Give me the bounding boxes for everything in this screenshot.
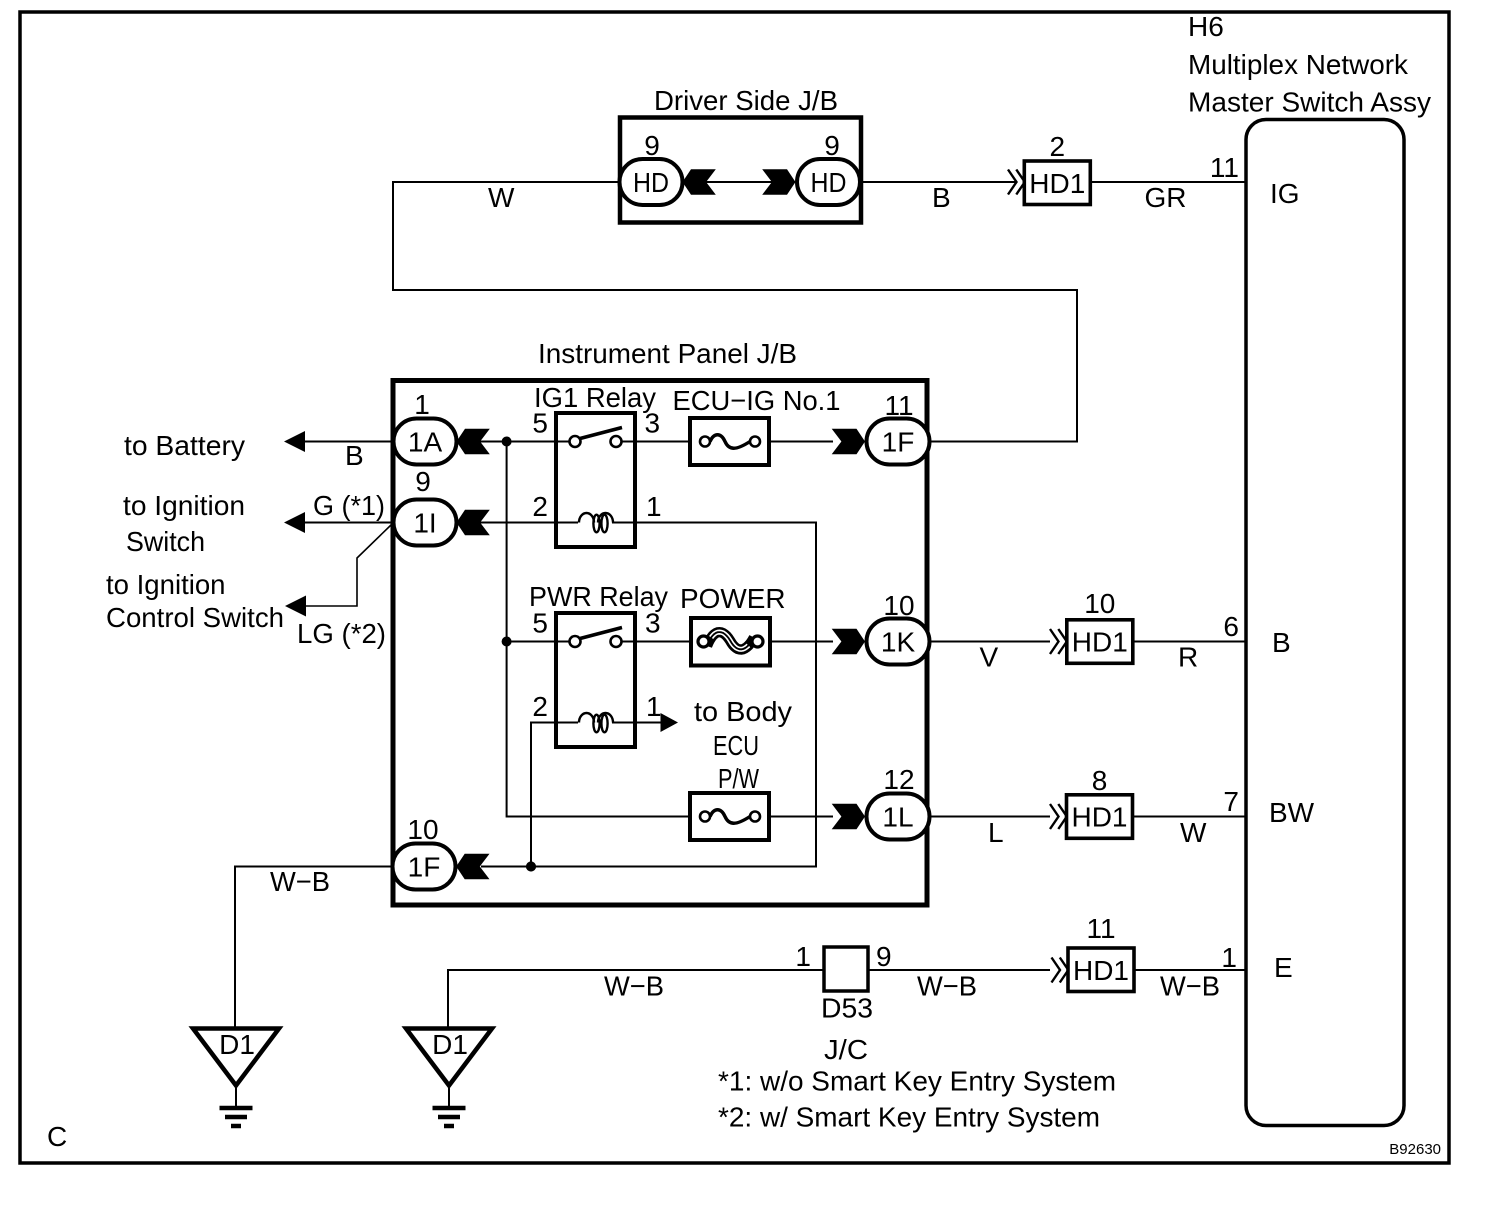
connector chevrons HD1(11) bbox=[1052, 958, 1069, 983]
connector chevrons HD1(2) bbox=[1008, 170, 1025, 195]
svg-text:1: 1 bbox=[646, 491, 662, 522]
wire junction to PWR relay pin5 bbox=[507, 641, 556, 643]
svg-text:5: 5 bbox=[532, 408, 548, 439]
svg-text:D1: D1 bbox=[432, 1029, 468, 1060]
svg-text:W−B: W−B bbox=[1160, 971, 1220, 1002]
arrow into 1K bbox=[832, 629, 865, 654]
wire POWER fuse to 1K arrow bbox=[770, 641, 833, 643]
wire branch to ignition control switch bbox=[304, 525, 392, 607]
wire PWR coil pin1 to body ECU arrow bbox=[635, 722, 661, 724]
svg-text:E: E bbox=[1274, 952, 1293, 983]
wire ECU-IG fuse to 1F(11) arrow bbox=[769, 441, 833, 443]
svg-text:6: 6 bbox=[1223, 611, 1239, 642]
svg-text:11: 11 bbox=[1210, 152, 1239, 183]
svg-text:BW: BW bbox=[1269, 797, 1315, 828]
relay PWR coil bbox=[556, 722, 578, 724]
wire W-B from D1 right to D53 bbox=[448, 970, 824, 1029]
arrow into HD left bbox=[683, 169, 716, 194]
connector HD1 (2) bbox=[1024, 161, 1090, 205]
svg-text:Multiplex Network: Multiplex Network bbox=[1188, 49, 1409, 80]
wire W-B to ground D1 left bbox=[235, 867, 394, 1029]
arrow into 1L bbox=[832, 804, 865, 829]
relay PWR bbox=[556, 613, 635, 747]
svg-text:1: 1 bbox=[646, 691, 662, 722]
svg-text:10: 10 bbox=[407, 814, 438, 845]
wire IG1 coil pin1 down to 1F(10) row bbox=[481, 523, 816, 867]
svg-text:11: 11 bbox=[1086, 913, 1115, 944]
svg-text:B92630: B92630 bbox=[1389, 1141, 1441, 1158]
svg-text:B: B bbox=[1272, 627, 1291, 658]
wire B to battery bbox=[304, 441, 394, 443]
connector 1A bbox=[394, 419, 457, 465]
svg-text:1K: 1K bbox=[881, 627, 916, 658]
svg-text:HD: HD bbox=[633, 167, 669, 198]
wire V from 1K to HD1(10) bbox=[930, 641, 1051, 643]
svg-text:1F: 1F bbox=[882, 427, 915, 458]
connector 1I bbox=[394, 500, 457, 546]
connector HD1 (8) bbox=[1067, 795, 1133, 839]
svg-text:Control Switch: Control Switch bbox=[106, 602, 284, 633]
wire 1I to IG1 relay pin2 bbox=[480, 522, 556, 524]
wire IG1 relay pin3 to ECU-IG fuse bbox=[635, 441, 690, 443]
svg-text:H6: H6 bbox=[1188, 11, 1224, 42]
fuse POWER (fusible link) bbox=[691, 618, 770, 666]
svg-text:HD1: HD1 bbox=[1029, 168, 1085, 199]
relay PWR contact bbox=[556, 641, 570, 643]
svg-text:GR: GR bbox=[1145, 182, 1187, 213]
svg-text:1: 1 bbox=[414, 389, 430, 420]
svg-text:*2: w/ Smart Key Entry System: *2: w/ Smart Key Entry System bbox=[718, 1102, 1100, 1133]
svg-text:10: 10 bbox=[1084, 588, 1115, 619]
junction block Driver Side J/B box bbox=[620, 118, 861, 223]
arrow into 1F(11) bbox=[832, 429, 865, 454]
svg-text:ECU: ECU bbox=[713, 730, 759, 761]
svg-text:3: 3 bbox=[645, 608, 661, 639]
svg-text:*1: w/o Smart Key Entry System: *1: w/o Smart Key Entry System bbox=[718, 1066, 1116, 1097]
connector 1F (11) bbox=[867, 419, 930, 465]
svg-text:G (*1): G (*1) bbox=[313, 490, 385, 521]
relay IG1 bbox=[556, 413, 635, 547]
arrow into 1I bbox=[457, 510, 490, 535]
svg-text:to Ignition: to Ignition bbox=[123, 490, 245, 521]
ground D1 right bbox=[406, 1029, 492, 1127]
relay IG1 contact bbox=[556, 441, 570, 443]
connector HD right bbox=[797, 159, 860, 205]
arrow to Ignition Control Switch bbox=[285, 596, 306, 617]
wire 1A to IG1 relay pin5 bbox=[480, 441, 556, 443]
junction connector D53 box bbox=[824, 947, 868, 991]
arrow to Battery bbox=[284, 431, 305, 452]
wire PWR coil pin2 down to 1F(10) row bbox=[531, 723, 556, 867]
connector chevrons HD1(8) bbox=[1050, 804, 1067, 829]
svg-text:11: 11 bbox=[884, 390, 913, 421]
svg-text:10: 10 bbox=[883, 590, 914, 621]
svg-text:1L: 1L bbox=[882, 802, 913, 833]
svg-text:D1: D1 bbox=[219, 1029, 255, 1060]
svg-text:Instrument Panel J/B: Instrument Panel J/B bbox=[538, 338, 797, 369]
arrow to Ignition Switch bbox=[284, 512, 305, 533]
svg-text:W−B: W−B bbox=[270, 866, 330, 897]
svg-text:9: 9 bbox=[644, 130, 660, 161]
svg-text:8: 8 bbox=[1092, 765, 1108, 796]
connector chevrons HD1(10) bbox=[1050, 629, 1067, 654]
ground D1 left bbox=[193, 1029, 279, 1127]
junction dot at PWR pin5 row bbox=[502, 637, 512, 647]
svg-text:R: R bbox=[1178, 642, 1198, 673]
connector 1L bbox=[867, 794, 930, 840]
svg-text:POWER: POWER bbox=[680, 583, 786, 614]
wire R from HD1 to B pin bbox=[1133, 641, 1246, 643]
connector HD1 (11) bbox=[1068, 948, 1134, 992]
svg-text:IG: IG bbox=[1270, 178, 1300, 209]
svg-text:J/C: J/C bbox=[824, 1034, 868, 1065]
wire P/W fuse to 1L arrow bbox=[769, 816, 833, 818]
svg-text:Switch: Switch bbox=[126, 526, 205, 557]
connector HD1 (10) bbox=[1067, 620, 1133, 664]
svg-text:1I: 1I bbox=[413, 508, 436, 539]
wire G to ignition switch bbox=[304, 522, 394, 524]
svg-text:2: 2 bbox=[532, 691, 548, 722]
arrow into 1A bbox=[457, 429, 490, 454]
svg-text:7: 7 bbox=[1223, 786, 1239, 817]
svg-text:1: 1 bbox=[1221, 942, 1237, 973]
svg-text:to Battery: to Battery bbox=[124, 430, 245, 461]
svg-text:HD1: HD1 bbox=[1073, 955, 1129, 986]
svg-text:2: 2 bbox=[532, 491, 548, 522]
svg-text:C: C bbox=[47, 1121, 67, 1152]
wire PWR relay pin3 to POWER fuse bbox=[635, 641, 691, 643]
svg-text:IG1 Relay: IG1 Relay bbox=[534, 382, 656, 413]
svg-text:9: 9 bbox=[824, 130, 840, 161]
svg-text:V: V bbox=[980, 642, 999, 673]
junction dot on 1F(10) wire bbox=[526, 862, 536, 872]
svg-text:B: B bbox=[932, 182, 951, 213]
svg-text:HD: HD bbox=[811, 167, 847, 198]
junction dot at 1F(10) row bbox=[526, 862, 536, 872]
wire W-B from D53 to HD1(11) bbox=[868, 969, 1050, 971]
svg-text:W: W bbox=[1180, 817, 1207, 848]
svg-text:W−B: W−B bbox=[604, 971, 664, 1002]
svg-text:D53: D53 bbox=[821, 993, 873, 1024]
wire B from HD right to HD1 bbox=[860, 181, 1016, 183]
junction block Instrument Panel J/B box bbox=[393, 381, 927, 906]
svg-text:to Ignition: to Ignition bbox=[106, 569, 226, 600]
svg-text:HD1: HD1 bbox=[1071, 802, 1127, 833]
connector H6 Multiplex Network Master Switch Assy body bbox=[1246, 120, 1404, 1126]
wire W from HD left to 1F(11) bbox=[393, 182, 1077, 442]
relay IG1 coil bbox=[556, 522, 578, 524]
junction dot at 1A row bbox=[502, 437, 512, 447]
wire W-B from HD1 to E pin bbox=[1134, 969, 1246, 971]
connector 1K bbox=[867, 619, 930, 665]
arrow to Body ECU bbox=[661, 713, 679, 732]
connector HD left bbox=[620, 159, 683, 205]
fuse P/W bbox=[690, 793, 769, 840]
svg-text:3: 3 bbox=[645, 408, 661, 439]
wire between HD arrows bbox=[706, 181, 773, 183]
svg-text:9: 9 bbox=[876, 941, 892, 972]
svg-text:P/W: P/W bbox=[718, 763, 759, 794]
svg-text:1A: 1A bbox=[408, 427, 443, 458]
arrow into HD right bbox=[762, 169, 795, 194]
fuse ECU-IG No.1 bbox=[690, 418, 769, 465]
wire W from HD1 to BW pin bbox=[1133, 816, 1247, 818]
svg-text:W: W bbox=[488, 182, 515, 213]
svg-text:HD1: HD1 bbox=[1072, 627, 1128, 658]
wire main vertical to P/W fuse bbox=[507, 442, 690, 817]
svg-text:Driver Side J/B: Driver Side J/B bbox=[654, 85, 838, 116]
svg-text:2: 2 bbox=[1050, 131, 1066, 162]
svg-text:W−B: W−B bbox=[917, 971, 977, 1002]
svg-text:to Body: to Body bbox=[694, 696, 792, 727]
wire GR from HD1 to IG pin bbox=[1090, 181, 1246, 183]
svg-text:LG (*2): LG (*2) bbox=[297, 618, 386, 649]
svg-text:L: L bbox=[988, 817, 1004, 848]
svg-text:5: 5 bbox=[532, 608, 548, 639]
svg-text:B: B bbox=[345, 440, 364, 471]
svg-text:1F: 1F bbox=[408, 852, 441, 883]
svg-text:Master Switch Assy: Master Switch Assy bbox=[1188, 87, 1431, 118]
svg-text:9: 9 bbox=[415, 466, 431, 497]
svg-text:1: 1 bbox=[795, 941, 811, 972]
wire L from 1L to HD1(8) bbox=[930, 816, 1051, 818]
svg-text:12: 12 bbox=[883, 764, 914, 795]
svg-text:ECU−IG No.1: ECU−IG No.1 bbox=[673, 385, 841, 416]
arrow into 1F(10) bbox=[456, 854, 489, 879]
connector 1F (10) bbox=[393, 844, 456, 890]
